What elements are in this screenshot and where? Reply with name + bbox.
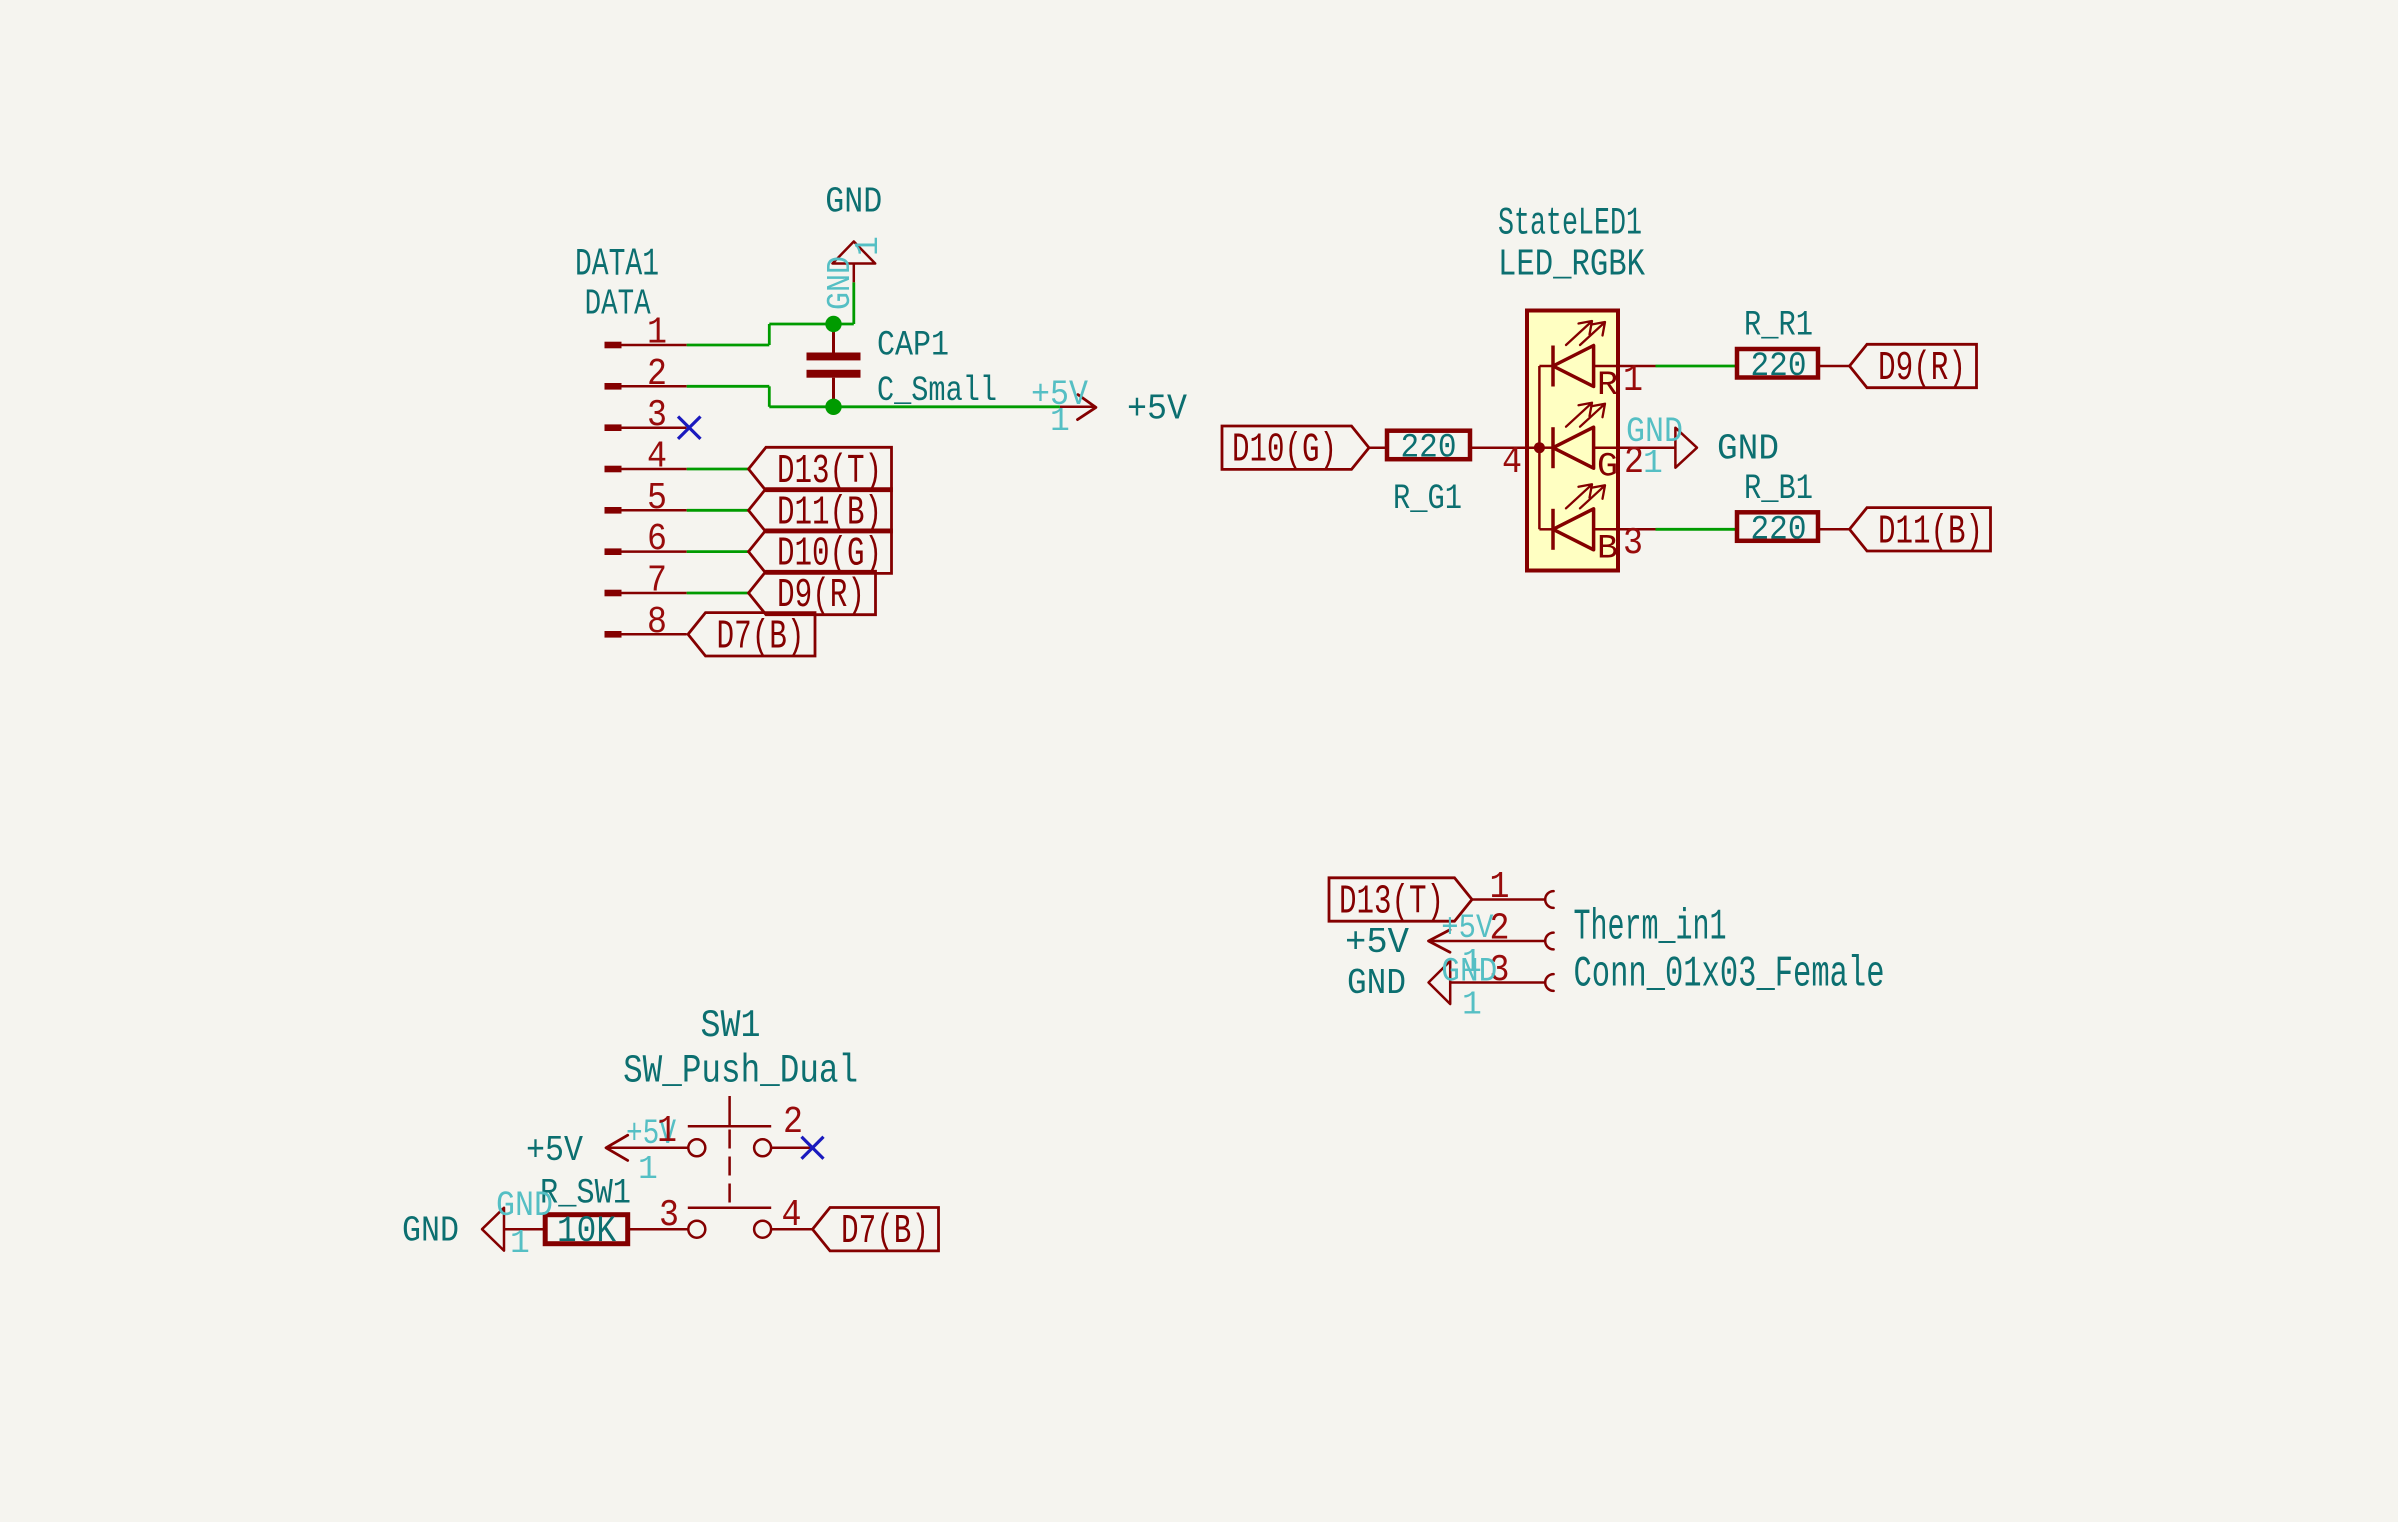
svg-text:+5V: +5V — [1127, 389, 1187, 430]
svg-text:1: 1 — [1623, 359, 1643, 402]
svg-text:Conn_01x03_Female: Conn_01x03_Female — [1574, 950, 1885, 1000]
LED pin 4 / resistor pin — [1470, 446, 1539, 449]
SW1 pin 4 — [771, 1228, 812, 1231]
svg-text:+5V: +5V — [526, 1130, 583, 1171]
svg-text:GND: GND — [822, 256, 859, 310]
svg-text:2: 2 — [783, 1101, 803, 1144]
connector DATA1 pin 8 — [605, 631, 622, 638]
global label D11(B) — [749, 489, 892, 532]
power symbol +5V (connector) — [1429, 930, 1451, 952]
wire pin1 vertical — [768, 324, 771, 345]
female socket 1 — [1545, 891, 1553, 908]
svg-text:1: 1 — [1462, 987, 1482, 1024]
svg-text:4: 4 — [647, 435, 667, 478]
switch SW1 pole A — [688, 1139, 705, 1156]
svg-text:D11(B): D11(B) — [1878, 509, 1983, 555]
svg-text:D10(G): D10(G) — [1232, 428, 1337, 474]
connector DATA1 pin 6 — [605, 548, 622, 555]
svg-text:R_G1: R_G1 — [1393, 479, 1462, 519]
svg-text:1: 1 — [1643, 445, 1663, 482]
svg-text:D13(T): D13(T) — [1339, 880, 1444, 926]
wire pin2 vertical — [768, 386, 771, 406]
svg-text:+5V: +5V — [1441, 910, 1493, 948]
svg-text:6: 6 — [647, 518, 667, 561]
global label D11(B) right — [1850, 508, 1991, 551]
svg-text:220: 220 — [1751, 511, 1807, 549]
capacitor CAP1 — [807, 353, 861, 361]
svg-text:LED_RGBK: LED_RGBK — [1498, 244, 1645, 287]
svg-text:1: 1 — [510, 1225, 530, 1262]
global label D13(T) — [749, 447, 892, 490]
pole A bar — [688, 1125, 771, 1128]
dual link dashed — [728, 1130, 731, 1208]
svg-text:5: 5 — [647, 477, 667, 520]
LED pin 3 — [1619, 528, 1656, 531]
pole A stem — [728, 1096, 731, 1126]
global label D13(T) at connector — [1329, 878, 1472, 921]
svg-text:DATA1: DATA1 — [575, 243, 659, 287]
power symbol GND (connector) — [1429, 961, 1451, 1004]
svg-text:GND: GND — [1347, 963, 1406, 1004]
svg-text:CAP1: CAP1 — [877, 326, 949, 366]
R_G1 left pin — [1369, 446, 1387, 449]
connector DATA1 pin 4 — [605, 466, 622, 473]
connector Therm_in1 pin 1 — [1472, 898, 1545, 901]
wire to label — [687, 468, 749, 471]
female socket 3 — [1545, 974, 1553, 991]
svg-text:R: R — [1597, 367, 1618, 405]
junction GND net — [825, 316, 841, 332]
svg-text:10K: 10K — [557, 1211, 617, 1253]
SW1 pin 3 — [628, 1228, 689, 1231]
LED element B — [1551, 509, 1555, 550]
global label D9(R) right — [1850, 344, 1977, 387]
svg-text:GND: GND — [825, 182, 882, 223]
wire pin1 to R_R1 — [1656, 365, 1738, 368]
connector DATA1 pin 3 — [605, 424, 622, 431]
svg-text:R_R1: R_R1 — [1744, 306, 1813, 346]
svg-text:StateLED1: StateLED1 — [1498, 202, 1642, 246]
power symbol GND (right of LED) — [1675, 428, 1697, 468]
svg-text:220: 220 — [1751, 348, 1807, 386]
svg-text:1: 1 — [657, 1110, 677, 1153]
svg-text:C_Small: C_Small — [877, 371, 997, 411]
SW1 pin 1 — [606, 1147, 688, 1150]
R_SW1 left pin — [504, 1228, 545, 1231]
LED pin 1 — [1619, 365, 1656, 368]
svg-text:4: 4 — [1502, 441, 1522, 484]
global label D7(B) at SW1 — [813, 1208, 939, 1251]
wire to GND net — [769, 323, 854, 326]
svg-text:1: 1 — [647, 312, 667, 355]
LED_RGBK body — [1527, 311, 1618, 571]
wire pin2 horizontal — [687, 385, 770, 388]
svg-text:+5V: +5V — [1345, 922, 1409, 963]
power symbol +5V (SW1) — [606, 1135, 628, 1160]
junction +5V net — [825, 399, 841, 415]
LED element G — [1551, 427, 1555, 468]
wire to label — [687, 592, 749, 595]
svg-text:R_SW1: R_SW1 — [540, 1174, 631, 1214]
svg-text:7: 7 — [647, 559, 667, 602]
connector DATA1 pin 2 — [605, 383, 622, 390]
resistor R_SW1 — [545, 1215, 628, 1244]
wire up to GND symbol — [852, 282, 855, 324]
LED element R — [1551, 346, 1555, 387]
svg-text:DATA: DATA — [585, 284, 651, 325]
R_B1 right pin — [1818, 528, 1850, 531]
svg-text:D7(B): D7(B) — [717, 614, 805, 660]
svg-text:GND: GND — [496, 1186, 553, 1226]
pole B bar — [688, 1206, 771, 1209]
resistor R_R1 — [1737, 349, 1818, 378]
no-connect pin 3 — [678, 416, 701, 438]
svg-text:D9(R): D9(R) — [1878, 346, 1966, 392]
R_R1 right pin — [1818, 365, 1850, 368]
svg-text:1: 1 — [1050, 403, 1070, 440]
svg-text:3: 3 — [1623, 522, 1643, 565]
resistor R_G1 — [1387, 431, 1470, 460]
svg-text:220: 220 — [1401, 430, 1457, 468]
svg-text:D7(B): D7(B) — [841, 1209, 929, 1255]
svg-text:R_B1: R_B1 — [1744, 469, 1813, 509]
svg-text:1: 1 — [638, 1151, 658, 1188]
connector DATA1 pin 7 — [605, 590, 622, 597]
connector DATA1 pin 1 — [605, 342, 622, 349]
global label D7(B) — [688, 613, 815, 656]
wire pin3 to R_B1 — [1656, 528, 1738, 531]
global label D10(G) — [749, 530, 892, 573]
power symbol GND (SW1) — [482, 1208, 504, 1251]
LED pin 2 — [1619, 446, 1675, 449]
wire to label — [687, 550, 749, 553]
svg-text:1: 1 — [1490, 866, 1510, 909]
wire pin1 horizontal — [687, 344, 770, 347]
resistor R_B1 — [1737, 512, 1818, 541]
wire to label — [687, 509, 749, 512]
svg-text:SW_Push_Dual: SW_Push_Dual — [623, 1050, 858, 1095]
power symbol +5V (top) — [1060, 406, 1096, 409]
power symbol GND (top) — [833, 242, 876, 264]
wire +5V net — [769, 405, 1060, 408]
svg-text:Therm_in1: Therm_in1 — [1574, 903, 1727, 953]
internal common rail — [1538, 366, 1541, 529]
global label D10(G) left — [1222, 426, 1369, 469]
global label D9(R) — [749, 571, 876, 614]
SW1 pin 2 no-connect — [771, 1147, 814, 1150]
svg-text:B: B — [1597, 530, 1618, 568]
svg-text:8: 8 — [647, 601, 667, 644]
svg-text:GND: GND — [1717, 429, 1779, 470]
svg-text:1: 1 — [850, 236, 887, 256]
svg-text:3: 3 — [647, 394, 667, 437]
svg-text:3: 3 — [659, 1194, 679, 1237]
svg-text:2: 2 — [647, 353, 667, 396]
svg-text:4: 4 — [782, 1194, 802, 1237]
female socket 2 — [1545, 933, 1553, 950]
svg-text:G: G — [1597, 449, 1618, 487]
connector DATA1 pin 5 — [605, 507, 622, 514]
svg-text:GND: GND — [402, 1211, 459, 1252]
internal junction — [1534, 442, 1545, 453]
svg-text:SW1: SW1 — [701, 1004, 761, 1048]
